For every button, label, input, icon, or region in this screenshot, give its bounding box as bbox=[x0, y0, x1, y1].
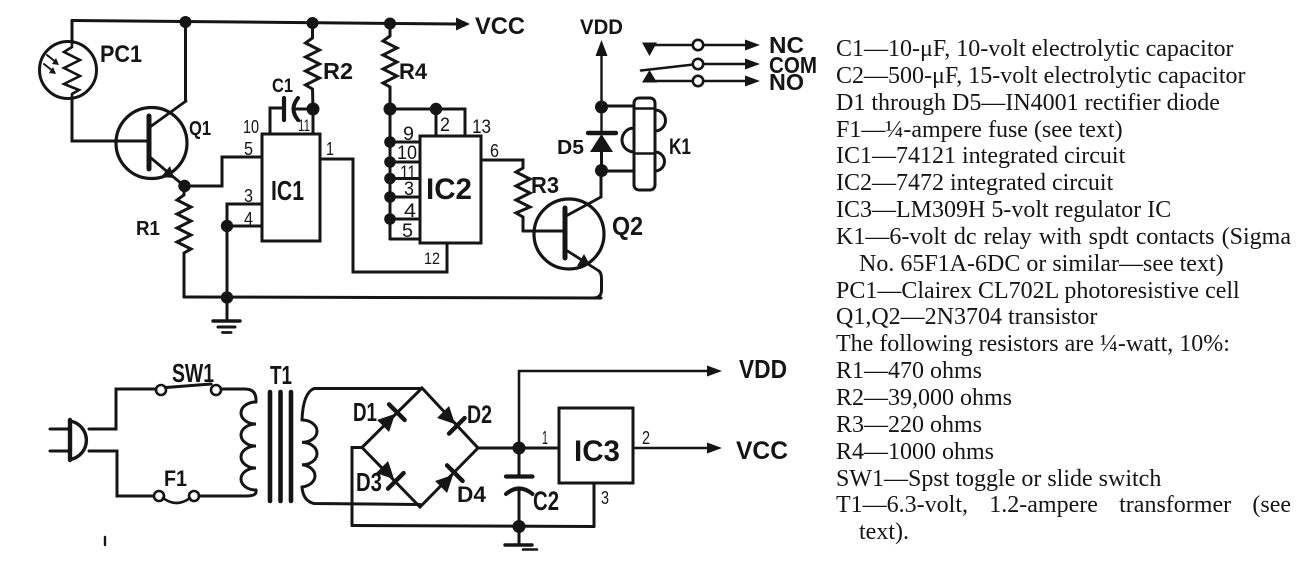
VDD output arrow bbox=[707, 354, 787, 384]
wire Q2 emitter to ground rail bbox=[593, 271, 602, 298]
pin 11 label IC1 bbox=[298, 116, 310, 135]
node pin 3 bbox=[384, 191, 396, 203]
svg-text:Q1: Q1 bbox=[189, 117, 211, 140]
pin 11 label IC2 bbox=[400, 163, 416, 184]
wire IC1 pin 11 riser bbox=[312, 109, 315, 134]
svg-text:VCC: VCC bbox=[736, 437, 788, 465]
node DC minus bbox=[513, 520, 526, 533]
VCC output arrow bbox=[707, 437, 788, 465]
wire Q2 collector riser bbox=[600, 170, 603, 197]
relay contact NO bbox=[642, 69, 804, 95]
IC2 7472 bbox=[420, 136, 481, 243]
resistor R1 bbox=[136, 186, 191, 297]
svg-text:12: 12 bbox=[424, 249, 440, 268]
wire IC2 input bus bbox=[389, 109, 392, 239]
svg-text:VDD: VDD bbox=[739, 354, 787, 384]
stray mark bbox=[104, 537, 106, 545]
svg-text:3: 3 bbox=[404, 179, 414, 200]
regulator IC3 bbox=[559, 408, 633, 483]
wire bridge plus to IC3 bbox=[478, 447, 559, 450]
svg-text:2: 2 bbox=[642, 428, 650, 448]
pin 1 label IC1 bbox=[326, 139, 334, 159]
relay coil K1 bbox=[622, 98, 691, 190]
svg-text:9: 9 bbox=[403, 124, 414, 145]
svg-text:D4: D4 bbox=[457, 482, 487, 507]
capacitor C1 bbox=[272, 76, 313, 120]
transistor Q2 bbox=[534, 197, 643, 271]
wire R3 to Q2 base bbox=[523, 230, 564, 233]
diode D4 bbox=[433, 465, 462, 494]
wire secondary bottom to bridge bbox=[302, 487, 420, 505]
wire VDD to D5/K1 node bbox=[600, 53, 602, 133]
resistor R3 bbox=[516, 168, 559, 231]
svg-text:10: 10 bbox=[243, 117, 259, 137]
svg-text:1: 1 bbox=[542, 428, 548, 448]
pin 5 label IC2 bbox=[402, 221, 413, 242]
pin 3 label IC3 bbox=[601, 488, 609, 508]
wire K1 top lead bbox=[602, 105, 635, 108]
svg-text:PC1: PC1 bbox=[100, 41, 142, 68]
svg-text:IC3: IC3 bbox=[574, 435, 620, 468]
pin 3 label IC2 bbox=[404, 179, 414, 200]
wire plug to SW1 bbox=[89, 389, 156, 429]
wire PC1 bottom to Q1 base bbox=[72, 97, 148, 141]
ground bottom bbox=[505, 527, 537, 550]
pin 12 label IC2 bbox=[424, 249, 440, 268]
svg-text:D2: D2 bbox=[467, 401, 492, 429]
node R2 top on VCC rail bbox=[307, 17, 319, 29]
wire VCC top rail bbox=[72, 21, 456, 25]
photocell PC1 bbox=[40, 41, 143, 99]
pin 3 label IC1 bbox=[244, 186, 253, 206]
ac plug P1 bbox=[50, 420, 86, 460]
wire IC2 pin 5 bbox=[390, 238, 420, 241]
svg-text:Q2: Q2 bbox=[612, 211, 643, 241]
svg-text:SW1: SW1 bbox=[172, 358, 214, 388]
diode D1 bbox=[375, 404, 404, 433]
svg-text:IC2: IC2 bbox=[426, 173, 472, 206]
svg-text:11: 11 bbox=[298, 116, 310, 135]
wire plug to F1 bbox=[89, 451, 154, 496]
ground bbox=[213, 297, 240, 333]
bridge rectifier diamond bbox=[362, 388, 478, 507]
wire IC1 pin 10 riser bbox=[270, 108, 282, 134]
node ground junction bbox=[221, 291, 233, 303]
svg-text:VCC: VCC bbox=[475, 13, 525, 40]
svg-text:IC1: IC1 bbox=[271, 175, 304, 206]
wire IC2 top pins 2,13 bbox=[390, 109, 465, 136]
transformer T1 core bbox=[270, 360, 292, 501]
node D5 cathode / K1 top bbox=[595, 101, 608, 114]
svg-text:K1: K1 bbox=[669, 134, 691, 159]
svg-text:5: 5 bbox=[402, 221, 413, 242]
wire VCC output bbox=[633, 447, 707, 450]
diode D3 bbox=[374, 459, 403, 488]
VDD arrow top bbox=[580, 16, 623, 56]
wire bottom rail bbox=[352, 526, 594, 527]
wire K1 bottom lead bbox=[602, 170, 635, 173]
svg-text:R4: R4 bbox=[399, 59, 428, 84]
node Q1 collector on VCC rail bbox=[180, 16, 192, 28]
svg-text:D5: D5 bbox=[557, 136, 584, 159]
switch SW1 bbox=[156, 358, 221, 395]
diode D2 label bbox=[467, 401, 492, 429]
node R4 bottom junction bbox=[384, 103, 397, 116]
node R4 top on VCC rail bbox=[384, 18, 396, 30]
wire SW1 to T1 primary bbox=[221, 389, 256, 402]
wire IC1 pins 3,4 to ground bbox=[227, 204, 262, 297]
transistor Q1 bbox=[116, 101, 211, 185]
svg-text:T1: T1 bbox=[270, 360, 292, 390]
wire IC2 pin 10 bbox=[390, 161, 420, 164]
pin 4 label IC1 bbox=[244, 209, 253, 229]
wire IC3 pin 3 bbox=[593, 483, 596, 527]
wire emitter to IC1 pin 5 bbox=[185, 157, 263, 186]
fuse F1 bbox=[154, 466, 199, 503]
diode D5 bbox=[557, 133, 616, 171]
pin 9 label IC2 bbox=[403, 124, 414, 145]
node DC plus bbox=[513, 442, 526, 455]
node C1 / R2 / pin 11 bbox=[307, 103, 320, 116]
pin 2 label IC3 bbox=[642, 428, 650, 448]
svg-text:1: 1 bbox=[326, 139, 334, 159]
svg-text:3: 3 bbox=[601, 488, 609, 508]
pin 6 label IC2 bbox=[490, 141, 499, 161]
svg-text:6: 6 bbox=[490, 141, 499, 161]
VCC arrow bbox=[456, 13, 525, 40]
wire F1 to T1 primary bbox=[199, 490, 256, 496]
transformer T1 secondary bbox=[302, 420, 317, 487]
wire IC1 pin 1 to IC2 pin 12 bbox=[320, 159, 447, 272]
svg-text:R1: R1 bbox=[136, 217, 160, 240]
svg-text:C2: C2 bbox=[533, 486, 559, 516]
wire bridge minus to bottom rail bbox=[352, 448, 362, 526]
pin 2 label IC2 bbox=[440, 115, 450, 136]
pin 5 label IC1 bbox=[244, 139, 253, 159]
pin 1 label IC3 bbox=[542, 428, 548, 448]
svg-text:4: 4 bbox=[244, 209, 253, 229]
pin 10 label IC2 bbox=[397, 143, 417, 164]
resistor R2 bbox=[306, 23, 354, 109]
svg-text:4: 4 bbox=[404, 201, 416, 222]
diode D1 label bbox=[353, 397, 377, 427]
relay contact COM bbox=[641, 52, 817, 78]
wire IC2 pin 9 bbox=[390, 141, 420, 144]
pin 4 label IC2 bbox=[404, 201, 416, 222]
diode D3 label bbox=[356, 467, 382, 497]
node pin 9 bbox=[384, 136, 396, 148]
wire ground rail bbox=[184, 297, 601, 298]
pin 13 label IC2 bbox=[472, 117, 491, 138]
wire Q1 collector riser bbox=[184, 22, 187, 101]
diode D2 bbox=[435, 404, 464, 433]
wire IC2 pin 4 bbox=[390, 218, 420, 221]
svg-text:3: 3 bbox=[244, 186, 253, 206]
svg-text:R3: R3 bbox=[531, 172, 559, 198]
svg-text:VDD: VDD bbox=[580, 16, 623, 39]
diode D4 label bbox=[457, 482, 487, 507]
resistor R4 bbox=[383, 24, 428, 110]
node pin 11 bbox=[384, 173, 396, 185]
wire IC2 pin 6 to R3 bbox=[481, 160, 523, 168]
wire IC2 pin 11 bbox=[390, 177, 420, 180]
svg-text:C1: C1 bbox=[272, 76, 293, 97]
svg-text:F1: F1 bbox=[164, 466, 187, 491]
pin 10 label IC1 bbox=[243, 117, 259, 137]
svg-text:2: 2 bbox=[440, 115, 450, 136]
svg-text:D3: D3 bbox=[356, 467, 382, 497]
wire PC1 top riser bbox=[71, 21, 74, 44]
relay contact NC bbox=[642, 32, 804, 58]
node Q1 emitter bbox=[178, 180, 190, 192]
node D5 anode / K1 bottom bbox=[595, 164, 608, 177]
node pin 4 bbox=[384, 213, 396, 225]
svg-text:R2: R2 bbox=[323, 58, 353, 84]
node pin 2 junction bbox=[430, 103, 442, 115]
wire secondary top to bridge bbox=[302, 389, 422, 421]
capacitor C2 bbox=[506, 448, 559, 527]
op-amp IC1 bbox=[262, 134, 320, 241]
svg-text:5: 5 bbox=[244, 139, 253, 159]
svg-text:D1: D1 bbox=[353, 397, 377, 427]
transformer T1 primary bbox=[241, 402, 256, 490]
svg-text:NO: NO bbox=[769, 69, 804, 95]
node IC1 pin4 junction bbox=[221, 220, 233, 232]
svg-text:10: 10 bbox=[397, 143, 417, 164]
wire IC2 pin 3 bbox=[390, 196, 420, 199]
node pin 10 bbox=[384, 156, 396, 168]
wire VDD output bbox=[519, 371, 707, 448]
